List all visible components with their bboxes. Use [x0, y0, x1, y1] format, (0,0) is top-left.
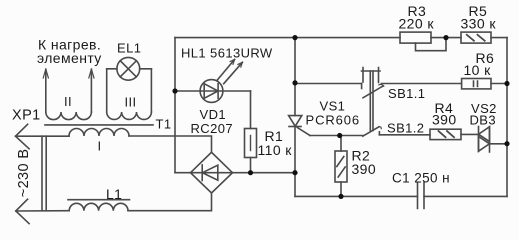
svg-text:II: II: [64, 94, 72, 109]
svg-text:SB1.1: SB1.1: [388, 86, 425, 101]
svg-text:элементу: элементу: [37, 50, 102, 66]
svg-text:VS1: VS1: [320, 99, 346, 114]
svg-text:DB3: DB3: [470, 112, 497, 127]
svg-text:I: I: [98, 139, 102, 154]
svg-text:ХР1: ХР1: [12, 108, 41, 124]
svg-text:220 к: 220 к: [399, 15, 435, 31]
svg-text:L1: L1: [106, 186, 122, 202]
svg-text:~230 В: ~230 В: [16, 149, 32, 198]
svg-text:390: 390: [352, 161, 377, 177]
svg-text:330 к: 330 к: [461, 15, 497, 31]
svg-text:EL1: EL1: [117, 41, 141, 56]
svg-text:SB1.2: SB1.2: [387, 120, 424, 135]
svg-text:RC207: RC207: [191, 121, 233, 136]
svg-text:Т1: Т1: [156, 117, 172, 132]
svg-text:HL1 5613URW: HL1 5613URW: [181, 45, 273, 60]
svg-text:10 к: 10 к: [464, 62, 492, 78]
svg-text:110 к: 110 к: [258, 142, 293, 158]
svg-text:PCR606: PCR606: [306, 113, 361, 128]
svg-text:390: 390: [432, 111, 457, 127]
svg-text:III: III: [125, 95, 137, 110]
svg-text:C1 250 н: C1 250 н: [392, 170, 450, 185]
